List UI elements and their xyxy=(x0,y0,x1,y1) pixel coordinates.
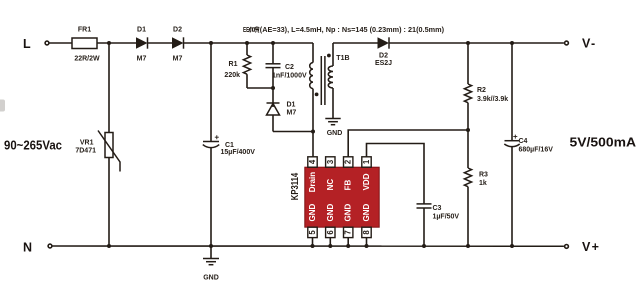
svg-text:L: L xyxy=(23,37,31,51)
node junction pin 7 xyxy=(346,244,350,248)
svg-text:2: 2 xyxy=(344,159,353,164)
svg-text:C4: C4 xyxy=(519,138,528,145)
svg-text:D2: D2 xyxy=(379,53,388,60)
svg-text:NC: NC xyxy=(326,179,335,191)
node junction R2 top xyxy=(466,41,470,45)
wire D2 to transformer primary top xyxy=(184,42,314,44)
svg-text:ES2J: ES2J xyxy=(375,60,392,67)
node junction C1 bottom xyxy=(209,244,213,248)
wire L to FR1 xyxy=(49,42,72,44)
svg-text:M7: M7 xyxy=(137,56,147,63)
svg-text:GND: GND xyxy=(326,204,335,222)
node N terminal xyxy=(48,244,52,248)
diode D1 snubber xyxy=(267,102,280,104)
svg-text:4: 4 xyxy=(308,159,317,164)
node V- terminal xyxy=(565,41,569,45)
svg-text:GND: GND xyxy=(203,275,219,282)
svg-text:M7: M7 xyxy=(173,56,183,63)
pin 5 xyxy=(308,227,317,237)
glyph 加 xyxy=(249,27,255,32)
resistor R2 xyxy=(467,43,469,84)
svg-text:7D471: 7D471 xyxy=(75,148,96,155)
svg-text:3.9k//3.9k: 3.9k//3.9k xyxy=(477,96,508,103)
core xyxy=(320,56,322,105)
diode D2 xyxy=(172,37,184,48)
svg-text:FB: FB xyxy=(344,180,353,191)
svg-text:7: 7 xyxy=(344,230,353,234)
capacitor C2 xyxy=(272,43,274,64)
svg-text:6: 6 xyxy=(326,230,335,235)
svg-text:22R/2W: 22R/2W xyxy=(74,56,100,63)
node junction C1 top xyxy=(209,41,213,45)
node drain junction xyxy=(311,130,315,134)
resistor R1 xyxy=(246,43,248,55)
pin 2 xyxy=(344,157,353,167)
title transformer spec xyxy=(243,26,444,34)
svg-text:C2: C2 xyxy=(285,64,294,71)
svg-text:GND: GND xyxy=(308,204,317,222)
svg-text:VDD: VDD xyxy=(362,173,371,190)
node junction VR1 top xyxy=(107,41,111,45)
secondary winding xyxy=(332,43,334,66)
resistor R3 xyxy=(467,130,469,168)
svg-text:220k: 220k xyxy=(224,72,240,79)
node junction C3 bottom xyxy=(422,244,426,248)
node junction snubber xyxy=(271,86,275,90)
pin 7 xyxy=(344,227,353,237)
wire pin 7 to ground rail xyxy=(347,238,349,246)
node L terminal xyxy=(45,41,49,45)
pin 4 xyxy=(308,157,317,167)
node junction R1 top xyxy=(245,41,249,45)
svg-text:D1: D1 xyxy=(287,102,296,109)
wire bottom rail xyxy=(52,245,564,247)
svg-text:5: 5 xyxy=(308,230,317,235)
node junction R3 bottom xyxy=(466,244,470,248)
node junction pin 8 xyxy=(365,244,369,248)
svg-text:GND: GND xyxy=(362,204,371,222)
node junction C4 bottom xyxy=(510,244,514,248)
wire snubber to drain node xyxy=(273,131,313,133)
wire FB line xyxy=(348,130,468,157)
svg-text:V-: V- xyxy=(582,36,596,50)
svg-text:Drain: Drain xyxy=(308,172,317,193)
watermark artifact left edge xyxy=(0,100,5,112)
wire pin 5 to ground rail xyxy=(312,238,314,246)
primary winding xyxy=(312,43,314,63)
chip body xyxy=(305,167,379,227)
node junction pin 5 xyxy=(311,244,315,248)
wire D1 to D2 xyxy=(148,42,173,44)
svg-text:D1: D1 xyxy=(137,27,146,34)
capacitor C1 xyxy=(210,43,212,141)
wire pin 6 to ground rail xyxy=(329,238,331,246)
svg-text:3: 3 xyxy=(326,159,335,164)
node junction C2 top xyxy=(271,41,275,45)
ground secondary xyxy=(325,118,340,120)
pin 6 xyxy=(326,227,335,237)
svg-text:VR1: VR1 xyxy=(80,140,94,147)
svg-text:5V/500mA: 5V/500mA xyxy=(570,135,637,149)
wire VDD line to C3 xyxy=(367,144,425,204)
svg-text:R1: R1 xyxy=(229,61,238,68)
ground primary xyxy=(210,246,212,259)
svg-text:680µF/16V: 680µF/16V xyxy=(519,146,554,153)
svg-text:N: N xyxy=(23,241,32,255)
varistor VR1 xyxy=(108,43,110,133)
pin 1 xyxy=(362,157,371,167)
svg-text:M7: M7 xyxy=(287,110,297,117)
polarity dot secondary xyxy=(327,54,331,58)
polarity dot primary xyxy=(315,93,319,97)
svg-text:1k: 1k xyxy=(479,180,487,187)
svg-text:D2: D2 xyxy=(173,27,182,34)
wire pin 8 to ground rail xyxy=(366,238,368,246)
svg-text:R3: R3 xyxy=(479,172,488,179)
svg-text:15µF/400V: 15µF/400V xyxy=(221,149,256,156)
svg-text:1nF/1000V: 1nF/1000V xyxy=(272,73,307,80)
node junction FB xyxy=(466,128,470,132)
svg-text:GND: GND xyxy=(327,130,343,137)
pin 3 xyxy=(326,157,335,167)
node junction VR1 bottom xyxy=(107,244,111,248)
svg-text:KP3114: KP3114 xyxy=(290,172,301,200)
svg-text:8: 8 xyxy=(362,230,371,235)
svg-text:C1: C1 xyxy=(225,142,234,149)
diode D2 output xyxy=(333,42,378,44)
svg-text:R2: R2 xyxy=(477,87,486,94)
wire FR1 to D1 xyxy=(97,42,136,44)
svg-text:C3: C3 xyxy=(433,205,442,212)
svg-text:(AE=33), L=4.5mH, Np : Ns=14: (AE=33), L=4.5mH, Np : Ns=145 (0.23mm) :… xyxy=(260,27,444,34)
svg-text:EE: EE xyxy=(243,27,249,34)
svg-text:1: 1 xyxy=(362,159,371,164)
capacitor C4 xyxy=(511,43,513,140)
resistor FR1 xyxy=(72,38,97,49)
svg-text:V+: V+ xyxy=(582,240,600,254)
wire R1 bottom to C2 bottom xyxy=(247,87,273,89)
node junction C4 top xyxy=(510,41,514,45)
glyph 宽 xyxy=(255,26,259,32)
node V+ terminal xyxy=(565,245,569,249)
wire D2 to V- xyxy=(389,42,564,44)
node junction pin 6 xyxy=(328,244,332,248)
svg-text:90~265Vac: 90~265Vac xyxy=(4,138,62,152)
pin 8 xyxy=(362,227,371,237)
capacitor C3 xyxy=(417,203,432,205)
svg-text:T1B: T1B xyxy=(336,55,349,62)
svg-text:FR1: FR1 xyxy=(78,27,91,34)
svg-text:GND: GND xyxy=(344,204,353,222)
diode D1 xyxy=(136,37,148,48)
svg-text:1µF/50V: 1µF/50V xyxy=(433,213,460,220)
